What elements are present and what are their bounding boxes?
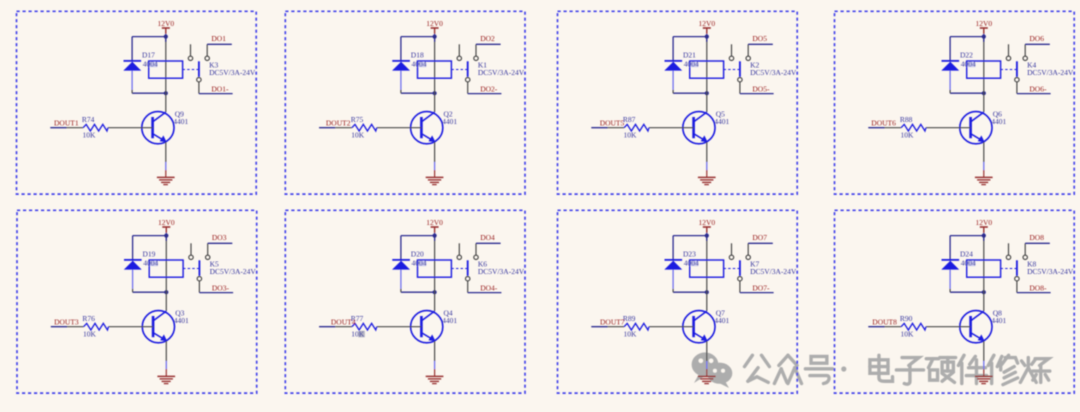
svg-text:4401: 4401 <box>714 117 729 126</box>
svg-text:DC5V/3A-24V: DC5V/3A-24V <box>478 267 525 276</box>
svg-text:4401: 4401 <box>442 117 457 126</box>
svg-text:DO1-: DO1- <box>211 85 229 94</box>
svg-text:DO2: DO2 <box>480 34 495 43</box>
svg-text:D19: D19 <box>143 250 156 259</box>
svg-text:D17: D17 <box>142 51 155 60</box>
svg-text:12V0: 12V0 <box>975 19 992 28</box>
svg-text:4401: 4401 <box>174 316 189 325</box>
svg-text:DO3-: DO3- <box>212 284 230 293</box>
svg-text:DO2-: DO2- <box>480 85 498 94</box>
svg-text:4401: 4401 <box>173 117 188 126</box>
svg-text:DOUT7: DOUT7 <box>600 317 625 326</box>
svg-text:4401: 4401 <box>714 316 729 325</box>
svg-text:12V0: 12V0 <box>158 218 175 227</box>
svg-text:4004: 4004 <box>961 59 976 68</box>
svg-text:DO6: DO6 <box>1029 34 1044 43</box>
svg-text:R89: R89 <box>623 314 636 323</box>
svg-text:10K: 10K <box>351 130 365 139</box>
svg-text:10K: 10K <box>351 329 365 338</box>
svg-text:DC5V/3A-24V: DC5V/3A-24V <box>750 68 797 77</box>
svg-text:D20: D20 <box>411 250 424 259</box>
svg-text:DO7-: DO7- <box>752 284 770 293</box>
svg-text:12V0: 12V0 <box>157 19 174 28</box>
svg-text:R75: R75 <box>351 115 364 124</box>
svg-text:DO1: DO1 <box>211 34 226 43</box>
svg-text:DO6-: DO6- <box>1029 85 1047 94</box>
svg-text:10K: 10K <box>624 130 638 139</box>
svg-text:DOUT4: DOUT4 <box>331 317 356 326</box>
svg-text:DOUT1: DOUT1 <box>54 118 79 127</box>
svg-text:R88: R88 <box>900 115 913 124</box>
svg-text:4401: 4401 <box>991 117 1006 126</box>
svg-text:DO8: DO8 <box>1029 233 1044 242</box>
svg-text:4004: 4004 <box>684 59 699 68</box>
svg-text:DOUT8: DOUT8 <box>872 317 897 326</box>
svg-text:DO8-: DO8- <box>1029 284 1047 293</box>
svg-text:10K: 10K <box>901 329 915 338</box>
svg-text:DOUT5: DOUT5 <box>600 118 625 127</box>
svg-text:4004: 4004 <box>412 59 427 68</box>
svg-text:10K: 10K <box>83 130 97 139</box>
svg-text:R74: R74 <box>82 115 95 124</box>
svg-text:D23: D23 <box>683 250 696 259</box>
svg-text:10K: 10K <box>901 130 915 139</box>
svg-text:D24: D24 <box>960 250 973 259</box>
svg-text:DC5V/3A-24V: DC5V/3A-24V <box>209 68 256 77</box>
svg-text:DO5: DO5 <box>752 34 767 43</box>
svg-text:DO7: DO7 <box>752 233 767 242</box>
svg-text:R76: R76 <box>82 314 95 323</box>
svg-text:DC5V/3A-24V: DC5V/3A-24V <box>210 267 257 276</box>
svg-text:DC5V/3A-24V: DC5V/3A-24V <box>1027 267 1074 276</box>
svg-text:12V0: 12V0 <box>975 218 992 227</box>
svg-text:DO3: DO3 <box>212 233 227 242</box>
svg-text:12V0: 12V0 <box>698 19 715 28</box>
svg-text:12V0: 12V0 <box>426 218 443 227</box>
svg-text:4004: 4004 <box>412 258 427 267</box>
svg-text:R87: R87 <box>623 115 636 124</box>
svg-text:DOUT2: DOUT2 <box>326 118 351 127</box>
svg-text:4004: 4004 <box>143 59 158 68</box>
svg-text:DC5V/3A-24V: DC5V/3A-24V <box>750 267 797 276</box>
svg-text:4004: 4004 <box>961 258 976 267</box>
svg-text:10K: 10K <box>83 329 97 338</box>
svg-text:DOUT6: DOUT6 <box>871 118 896 127</box>
svg-text:DC5V/3A-24V: DC5V/3A-24V <box>1027 68 1074 77</box>
svg-text:DO5-: DO5- <box>752 85 770 94</box>
svg-text:DO4-: DO4- <box>480 284 498 293</box>
svg-text:DOUT3: DOUT3 <box>54 317 79 326</box>
svg-text:12V0: 12V0 <box>426 19 443 28</box>
svg-text:DC5V/3A-24V: DC5V/3A-24V <box>478 68 525 77</box>
svg-text:D21: D21 <box>683 51 696 60</box>
svg-text:D18: D18 <box>411 51 424 60</box>
svg-text:4004: 4004 <box>143 258 158 267</box>
svg-text:D22: D22 <box>960 51 973 60</box>
svg-text:4401: 4401 <box>991 316 1006 325</box>
svg-text:12V0: 12V0 <box>698 218 715 227</box>
svg-text:DO4: DO4 <box>480 233 495 242</box>
svg-text:4004: 4004 <box>684 258 699 267</box>
svg-text:10K: 10K <box>624 329 638 338</box>
svg-text:R90: R90 <box>900 314 913 323</box>
svg-text:4401: 4401 <box>442 316 457 325</box>
